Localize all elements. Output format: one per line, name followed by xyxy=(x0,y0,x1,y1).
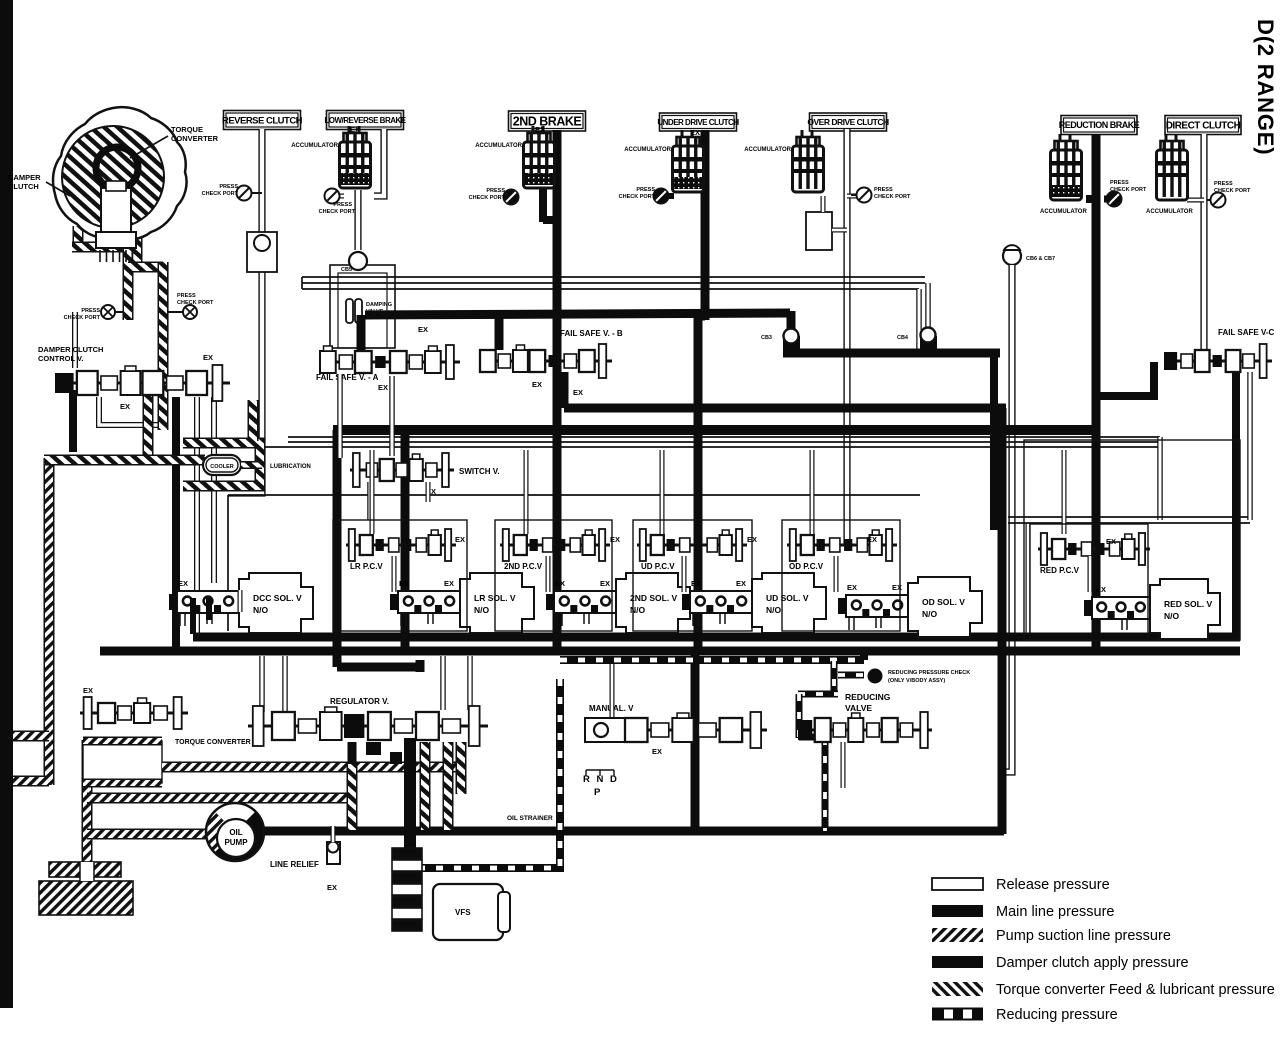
svg-text:OIL: OIL xyxy=(229,828,242,837)
svg-text:LR P.C.V: LR P.C.V xyxy=(350,562,383,571)
svg-text:2ND BRAKE: 2ND BRAKE xyxy=(513,115,582,129)
svg-text:EX: EX xyxy=(847,583,857,592)
svg-text:CB6 & CB7: CB6 & CB7 xyxy=(1026,256,1055,262)
svg-text:EX: EX xyxy=(178,579,188,588)
svg-text:DIRECT CLUTCH: DIRECT CLUTCH xyxy=(1166,121,1241,132)
svg-text:CHECK PORT: CHECK PORT xyxy=(177,300,214,306)
svg-text:REGULATOR V.: REGULATOR V. xyxy=(330,697,389,706)
svg-text:ACCUMULATOR: ACCUMULATOR xyxy=(624,147,671,153)
svg-text:N/O: N/O xyxy=(1164,611,1180,621)
svg-text:CHECK PORT: CHECK PORT xyxy=(64,315,101,321)
svg-text:EX: EX xyxy=(573,388,583,397)
svg-text:N/O: N/O xyxy=(253,605,269,615)
svg-text:CB5: CB5 xyxy=(341,267,352,273)
svg-text:EX: EX xyxy=(555,579,565,588)
svg-text:PRESS: PRESS xyxy=(1214,181,1233,187)
svg-text:EX: EX xyxy=(444,579,454,588)
svg-text:EX: EX xyxy=(327,883,337,892)
svg-text:REDUCTION BRAKE: REDUCTION BRAKE xyxy=(1059,120,1140,130)
svg-text:CONTROL V.: CONTROL V. xyxy=(38,354,83,363)
svg-text:(ONLY V/BODY ASSY): (ONLY V/BODY ASSY) xyxy=(888,678,945,684)
svg-text:2ND SOL. V: 2ND SOL. V xyxy=(630,593,678,603)
svg-text:RED P.C.V: RED P.C.V xyxy=(1040,566,1080,575)
svg-text:OIL STRAINER: OIL STRAINER xyxy=(507,815,553,822)
svg-text:UNDER DRIVE CLUTCH: UNDER DRIVE CLUTCH xyxy=(657,118,739,127)
svg-text:EX: EX xyxy=(350,125,360,134)
svg-text:OD P.C.V: OD P.C.V xyxy=(789,562,824,571)
svg-text:EX: EX xyxy=(535,125,545,134)
svg-text:EX: EX xyxy=(532,380,542,389)
svg-text:EX: EX xyxy=(600,579,610,588)
svg-text:ACCUMULATOR: ACCUMULATOR xyxy=(1146,209,1193,215)
svg-text:Pump suction line pressure: Pump suction line pressure xyxy=(996,928,1171,944)
svg-text:REDUCING PRESSURE CHECK: REDUCING PRESSURE CHECK xyxy=(888,670,970,676)
svg-text:VALVE: VALVE xyxy=(845,703,872,713)
svg-text:TORQUE: TORQUE xyxy=(171,125,203,134)
svg-text:OD SOL. V: OD SOL. V xyxy=(922,597,965,607)
svg-text:CHECK PORT: CHECK PORT xyxy=(1214,188,1251,194)
svg-text:CHECK PORT: CHECK PORT xyxy=(469,195,506,201)
svg-text:EX: EX xyxy=(83,686,93,695)
svg-text:ACCUMULATOR: ACCUMULATOR xyxy=(1040,209,1087,215)
svg-text:ACCUMULATOR: ACCUMULATOR xyxy=(475,143,522,149)
svg-text:PRESS: PRESS xyxy=(333,202,352,208)
svg-text:FAIL SAFE V-C: FAIL SAFE V-C xyxy=(1218,328,1275,337)
svg-text:Damper clutch apply pressure: Damper clutch apply pressure xyxy=(996,955,1189,971)
svg-text:FAIL SAFE V. - B: FAIL SAFE V. - B xyxy=(560,329,623,338)
svg-text:D(2 RANGE): D(2 RANGE) xyxy=(1253,19,1278,155)
svg-text:CHECK PORT: CHECK PORT xyxy=(319,209,356,215)
svg-text:Main line pressure: Main line pressure xyxy=(996,904,1114,920)
svg-text:PRESS: PRESS xyxy=(486,188,505,194)
svg-text:CHECK PORT: CHECK PORT xyxy=(202,191,239,197)
svg-text:COOLER: COOLER xyxy=(210,464,234,470)
svg-text:DAMPING: DAMPING xyxy=(366,302,392,308)
svg-text:Release pressure: Release pressure xyxy=(996,877,1110,893)
svg-text:REVERSE CLUTCH: REVERSE CLUTCH xyxy=(222,115,303,126)
svg-text:P: P xyxy=(594,787,601,798)
svg-text:EX: EX xyxy=(120,402,130,411)
svg-text:EX: EX xyxy=(378,383,388,392)
svg-text:SWITCH V.: SWITCH V. xyxy=(459,467,500,476)
svg-text:TORQUE CONVERTER: TORQUE CONVERTER xyxy=(175,739,251,746)
svg-text:PRESS: PRESS xyxy=(636,187,655,193)
svg-text:RED SOL. V: RED SOL. V xyxy=(1164,599,1213,609)
svg-text:VFS: VFS xyxy=(455,908,471,917)
svg-text:2ND P.C.V: 2ND P.C.V xyxy=(504,562,543,571)
svg-text:EX: EX xyxy=(399,579,409,588)
svg-text:EX: EX xyxy=(1106,537,1116,546)
svg-text:Torque converter Feed & lubric: Torque converter Feed & lubricant pressu… xyxy=(996,982,1275,998)
svg-text:EX: EX xyxy=(455,535,465,544)
svg-text:LINE RELIEF: LINE RELIEF xyxy=(270,860,319,869)
svg-text:Reducing pressure: Reducing pressure xyxy=(996,1007,1118,1023)
svg-text:LOW/REVERSE BRAKE: LOW/REVERSE BRAKE xyxy=(324,116,406,125)
svg-text:DAMPER CLUTCH: DAMPER CLUTCH xyxy=(38,345,103,354)
svg-text:REDUCING: REDUCING xyxy=(845,692,891,702)
svg-text:PRESS: PRESS xyxy=(1110,180,1129,186)
svg-text:PRESS: PRESS xyxy=(81,308,100,314)
svg-text:PUMP: PUMP xyxy=(224,838,248,847)
svg-text:UD P.C.V: UD P.C.V xyxy=(641,562,675,571)
svg-text:LUBRICATION: LUBRICATION xyxy=(270,464,311,470)
svg-text:N/O: N/O xyxy=(922,609,938,619)
svg-text:CHECK PORT: CHECK PORT xyxy=(619,194,656,200)
svg-text:CHECK PORT: CHECK PORT xyxy=(1110,187,1147,193)
svg-text:OVER DRIVE CLUTCH: OVER DRIVE CLUTCH xyxy=(807,117,889,127)
svg-text:CB3: CB3 xyxy=(761,335,772,341)
svg-text:EX: EX xyxy=(418,325,428,334)
svg-text:EX: EX xyxy=(736,579,746,588)
svg-text:CHECK PORT: CHECK PORT xyxy=(874,194,911,200)
svg-text:CONVERTER: CONVERTER xyxy=(171,134,219,143)
svg-text:FAIL SAFE V. - A: FAIL SAFE V. - A xyxy=(316,373,379,382)
svg-text:CLUTCH: CLUTCH xyxy=(8,182,39,191)
svg-text:EX: EX xyxy=(203,353,213,362)
svg-text:DAMPER: DAMPER xyxy=(8,173,41,182)
svg-text:DCC SOL. V: DCC SOL. V xyxy=(253,593,302,603)
svg-text:CB4: CB4 xyxy=(897,335,909,341)
svg-text:PRESS: PRESS xyxy=(874,187,893,193)
svg-text:PRESS: PRESS xyxy=(177,293,196,299)
svg-text:PRESS: PRESS xyxy=(219,184,238,190)
svg-text:N/O: N/O xyxy=(766,605,782,615)
svg-text:EX: EX xyxy=(652,747,662,756)
svg-text:ACCUMULATOR: ACCUMULATOR xyxy=(744,147,791,153)
svg-text:ACCUMULATOR: ACCUMULATOR xyxy=(291,143,338,149)
svg-text:EX: EX xyxy=(867,535,877,544)
svg-text:EX: EX xyxy=(690,128,700,137)
svg-text:EX: EX xyxy=(691,579,701,588)
svg-text:UD SOL. V: UD SOL. V xyxy=(766,593,809,603)
svg-text:N/O: N/O xyxy=(474,605,490,615)
svg-text:EX: EX xyxy=(1096,585,1106,594)
